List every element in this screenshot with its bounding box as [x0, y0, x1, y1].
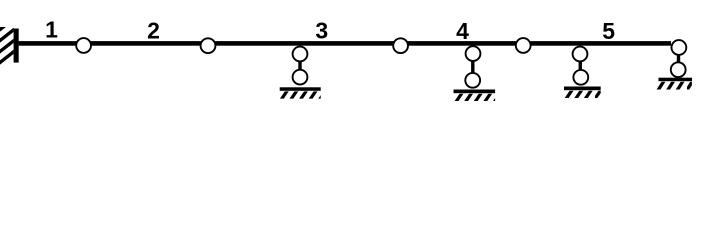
- support S1 lower hinge circle: [293, 70, 308, 85]
- support S2 ground hatching: [455, 94, 502, 101]
- support S3 link: [579, 54, 582, 77]
- support S2 upper hinge circle: [466, 46, 481, 61]
- support S1 ground bar: [280, 87, 321, 91]
- support S3 ground bar: [564, 87, 601, 91]
- support S1 ground hatching: [280, 91, 327, 98]
- hinge C circle: [393, 38, 408, 53]
- support S4 upper hinge circle (beam end): [672, 40, 687, 55]
- svg-text:1: 1: [45, 17, 58, 43]
- support S3 lower hinge circle: [573, 70, 588, 85]
- fixed support wall bar: [14, 29, 19, 63]
- svg-text:2: 2: [147, 17, 160, 43]
- support S2 lower hinge circle: [465, 73, 480, 88]
- hinge B circle: [201, 38, 216, 53]
- svg-text:3: 3: [315, 17, 328, 43]
- support S4 ground hatching: [657, 82, 695, 90]
- support S1 upper hinge circle: [293, 47, 308, 62]
- support S3 ground hatching: [565, 91, 603, 98]
- hinge A circle: [76, 38, 91, 53]
- support S2 ground bar: [454, 90, 496, 94]
- support S1 link: [298, 54, 301, 77]
- svg-text:4: 4: [456, 18, 469, 44]
- support S4 ground bar: [659, 78, 693, 82]
- support S4 lower hinge circle: [671, 62, 686, 77]
- beam (spans 1-5): [19, 41, 671, 46]
- fixed support wall hatching: [0, 18, 15, 64]
- hinge D circle: [516, 38, 531, 53]
- support S4 link: [677, 48, 680, 70]
- support S2 link: [471, 54, 474, 81]
- support S3 upper hinge circle: [573, 47, 588, 62]
- svg-text:5: 5: [602, 18, 615, 44]
